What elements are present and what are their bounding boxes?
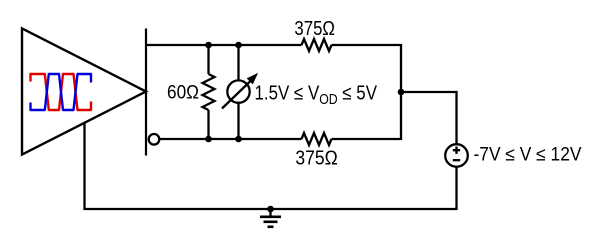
wire: bottom return rail: [85, 208, 458, 210]
driver output terminal bar: [145, 29, 147, 156]
svg-text:60Ω: 60Ω: [167, 83, 199, 104]
junction: 60ohm bottom: [205, 136, 212, 143]
junction: meter bottom: [235, 136, 242, 143]
junction: right node: [398, 89, 405, 96]
inverting output bubble: [149, 134, 160, 145]
driver U1 (line driver triangle): [22, 28, 146, 154]
wire: top rail right segment: [332, 44, 403, 46]
wire: meter bottom lead: [237, 103, 239, 139]
svg-text:-7V ≤ V ≤ 12V: -7V ≤ V ≤ 12V: [474, 145, 582, 166]
wire: source bottom lead: [455, 167, 457, 211]
wire: source top lead: [455, 91, 457, 145]
wire: node to source: [401, 91, 458, 93]
junction: 60ohm top: [205, 42, 212, 49]
wire: 60ohm top lead: [207, 45, 209, 74]
wire: right vertical lower: [400, 92, 402, 140]
wire: left vertical from driver to bottom rail: [83, 123, 85, 211]
resistor 375ohm bottom: [302, 133, 332, 145]
junction: ground node: [267, 206, 274, 213]
driver input waveform red trace: [31, 74, 92, 110]
ground: [260, 209, 281, 227]
driver input waveform blue trace: [31, 74, 92, 110]
meter M1 (variable voltage indicator): [222, 74, 257, 108]
wire: bottom rail right segment: [332, 138, 403, 140]
wire: bottom rail left segment from bubble: [159, 138, 301, 140]
wire: 60ohm bottom lead: [207, 110, 209, 139]
resistor 60ohm: [203, 74, 215, 110]
svg-text:1.5V ≤ VOD ≤ 5V: 1.5V ≤ VOD ≤ 5V: [255, 83, 378, 109]
voltage source V1: [445, 144, 468, 167]
wire: top rail left segment: [146, 44, 302, 46]
wire: meter top lead: [237, 45, 239, 81]
resistor 375ohm top: [302, 39, 332, 51]
svg-text:375Ω: 375Ω: [295, 147, 337, 169]
junction: meter top: [235, 42, 242, 49]
svg-text:375Ω: 375Ω: [294, 18, 335, 40]
wire: right vertical upper: [400, 44, 402, 92]
